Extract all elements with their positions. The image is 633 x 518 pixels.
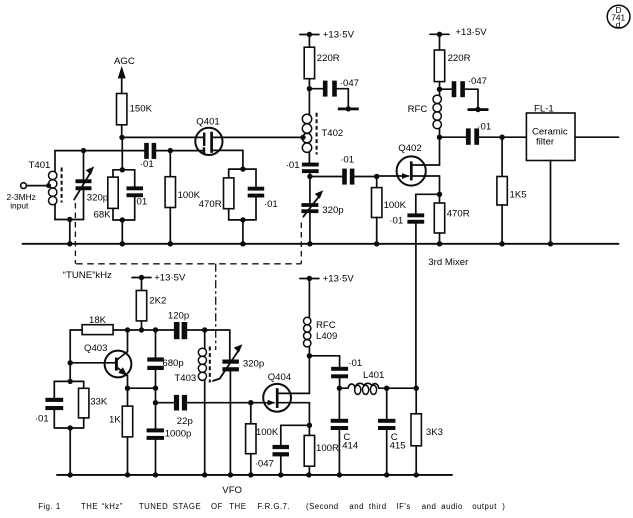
node +13.5V supply terminal (L409) (300, 274, 355, 318)
svg-text:audio: audio (441, 502, 463, 511)
node +13.5V supply terminal (2K2) (132, 273, 186, 291)
svg-text:100K: 100K (384, 200, 407, 211)
capacitor .01 (T402 secondary) (286, 160, 319, 179)
svg-text:·01: ·01 (348, 358, 362, 369)
svg-text:·047: ·047 (468, 76, 487, 87)
capacitor .01 coupling to FL-1 (440, 121, 505, 144)
svg-text:1K5: 1K5 (510, 190, 527, 201)
capacitor 680p (feedback) (147, 330, 183, 388)
svg-text:input: input (10, 200, 29, 210)
svg-text:1K: 1K (109, 415, 121, 426)
transistor Q403 (oscillator) (68, 330, 132, 388)
svg-text:100K: 100K (256, 427, 279, 438)
resistor 3K3 (411, 386, 443, 475)
node junction dots on bottom bus (68, 472, 419, 477)
svg-text:415: 415 (390, 440, 406, 451)
filter FL-1 ceramic filter (502, 104, 618, 244)
resistor 100K (Q404 gate) (246, 403, 279, 475)
capacitor .01 coupling to Q401 gate (140, 143, 204, 170)
svg-text:RFC: RFC (316, 320, 336, 331)
capacitor .01 (Q402 source to mixer injection) (389, 192, 442, 227)
svg-text:·01: ·01 (133, 196, 147, 207)
svg-text:OF: OF (211, 502, 223, 511)
svg-text:VFO: VFO (222, 485, 242, 496)
svg-text:(Second: (Second (306, 502, 339, 511)
svg-text:T401: T401 (29, 160, 51, 171)
capacitor .047 decoupling (Q402) (440, 76, 488, 108)
wire tuning gang dash link (2nd) (300, 223, 302, 264)
svg-text:·01: ·01 (264, 199, 278, 210)
svg-text:·01: ·01 (340, 154, 354, 165)
svg-text:470R: 470R (199, 199, 222, 210)
stamp D/741/d circle (607, 5, 630, 30)
ground (T402 .047) (338, 106, 359, 111)
svg-text:·047: ·047 (255, 459, 274, 470)
svg-text:220R: 220R (317, 53, 340, 64)
transistor Q402 (FET) (377, 137, 440, 194)
capacitor 320p (variable, 2nd gang) (301, 177, 343, 244)
svg-text:L401: L401 (363, 370, 384, 381)
svg-text:120p: 120p (168, 311, 189, 322)
capacitor .01 with resistor 33K (base network) (35, 363, 108, 475)
node junction dots on top bus (67, 241, 553, 246)
svg-text:output ): output ) (472, 502, 505, 511)
resistor 470R with .01 bypass (Q401 source) (199, 166, 278, 243)
capacitor C415 (378, 386, 416, 475)
svg-text:L409: L409 (316, 331, 337, 342)
resistor 100K (Q401 gate) (165, 151, 201, 244)
ground (Q402 .047) (468, 107, 489, 112)
svg-text:414: 414 (342, 440, 359, 451)
svg-text:and: and (349, 502, 364, 511)
svg-text:3K3: 3K3 (426, 427, 443, 438)
svg-text:Q401: Q401 (196, 116, 219, 127)
svg-text:·047: ·047 (340, 78, 359, 89)
wire tuning gang dash link (left) (74, 203, 76, 264)
transistor Q404 (FET buffer) (248, 356, 309, 426)
resistor 1K (emitter) (109, 388, 133, 475)
wire gate-2 wire to Q401 (122, 136, 204, 138)
svg-text:680p: 680p (162, 358, 183, 369)
wire collector node (113, 327, 174, 332)
transformer T401 (29, 151, 84, 244)
wire top tank wire to coupling cap (84, 150, 145, 152)
svg-text:68K: 68K (94, 209, 112, 220)
svg-text:Q404: Q404 (268, 372, 292, 383)
svg-text:33K: 33K (90, 397, 108, 408)
svg-text:470R: 470R (447, 208, 470, 219)
svg-text:22p: 22p (177, 416, 193, 427)
svg-text:filter: filter (536, 136, 555, 147)
svg-text:Q402: Q402 (398, 143, 421, 154)
svg-text:220R: 220R (448, 53, 471, 64)
resistor 68K with .01 bypass (94, 137, 148, 243)
inductor L401 (339, 370, 386, 394)
capacitor .047 (Q404 source) (255, 423, 312, 475)
svg-text:·01: ·01 (140, 159, 154, 170)
inductor RFC L409 (304, 317, 338, 358)
resistor 470R (Q402 source) (434, 194, 469, 244)
capacitor .01 coupling to Q402 gate (310, 154, 380, 184)
svg-text:“kHz”: “kHz” (102, 502, 123, 511)
svg-text:THE: THE (81, 502, 98, 511)
svg-text:·01: ·01 (35, 413, 49, 424)
svg-text:IF's: IF's (397, 502, 411, 511)
caption Fig.1 (38, 502, 505, 511)
resistor 2K2 (136, 291, 166, 331)
svg-text:T403: T403 (174, 373, 196, 384)
capacitor .047 decoupling (T402) (309, 78, 359, 107)
svg-text:·01: ·01 (477, 121, 491, 132)
transformer T402 (300, 89, 343, 163)
svg-text:+13·5V: +13·5V (323, 30, 355, 41)
svg-text:+13·5V: +13·5V (154, 273, 186, 284)
svg-text:320p: 320p (322, 205, 343, 216)
resistor 100K (Q402 gate) (372, 177, 407, 244)
svg-text:RFC: RFC (408, 104, 428, 115)
svg-text:+13·5V: +13·5V (323, 274, 355, 285)
capacitor 1000p (147, 403, 192, 475)
wire AGC feed with arrow (114, 56, 135, 94)
svg-text:100K: 100K (178, 190, 201, 201)
svg-text:d: d (616, 20, 621, 30)
svg-text:STAGE: STAGE (173, 502, 201, 511)
resistor 100R (Q404 source) (304, 425, 339, 475)
svg-text:3rd Mixer: 3rd Mixer (428, 257, 469, 268)
capacitor 22p (153, 388, 251, 427)
svg-text:THE: THE (229, 502, 246, 511)
wire emitter node (125, 386, 158, 391)
svg-text:third: third (369, 502, 387, 511)
inductor RFC (Q402 drain) (408, 89, 443, 140)
resistor 220R (T402 feed) (304, 47, 340, 91)
transistor Q401 (dual-gate FET) (195, 116, 303, 169)
resistor 220R (Q402 drain feed) (434, 50, 470, 92)
svg-text:Q403: Q403 (84, 343, 107, 354)
capacitor C414 (331, 388, 359, 475)
resistor 18K (feedback) (70, 315, 113, 363)
svg-text:1000p: 1000p (165, 429, 192, 440)
capacitor 320p (variable, 1st gang) (74, 148, 108, 220)
wire top ground bus (23, 243, 619, 245)
capacitor 120p (168, 311, 230, 360)
node +13.5V supply terminal (T402) (300, 30, 355, 48)
svg-text:150K: 150K (130, 103, 153, 114)
svg-text:“TUNE”kHz: “TUNE”kHz (63, 270, 112, 281)
svg-text:100R: 100R (316, 443, 339, 454)
svg-text:T402: T402 (321, 128, 343, 139)
svg-text:·01: ·01 (286, 160, 300, 171)
capacitor 320p (variable, 3rd gang) (213, 344, 264, 475)
node 2-3MHz input terminal (7, 183, 52, 211)
capacitor .01 (Q404 drain decoupling) (309, 356, 362, 391)
transformer T403 (174, 330, 209, 475)
resistor 1K5 (497, 137, 527, 244)
svg-text:and: and (422, 502, 437, 511)
svg-text:AGC: AGC (114, 56, 135, 67)
wire bottom ground bus (57, 474, 452, 476)
node +13.5V supply terminal (Q402 drain) (430, 27, 487, 50)
resistor 150K (117, 94, 153, 141)
svg-text:320p: 320p (243, 358, 264, 369)
svg-text:Fig. 1: Fig. 1 (38, 502, 61, 511)
wire 3rd mixer injection line (416, 224, 469, 389)
wire TUNE gang dashed bracket (63, 264, 301, 350)
svg-text:·01: ·01 (389, 215, 403, 226)
svg-text:2K2: 2K2 (149, 295, 166, 306)
svg-text:320p: 320p (87, 193, 108, 204)
svg-text:F.R.G.7.: F.R.G.7. (258, 502, 291, 511)
svg-text:+13·5V: +13·5V (455, 27, 487, 38)
svg-text:TUNED: TUNED (139, 502, 168, 511)
